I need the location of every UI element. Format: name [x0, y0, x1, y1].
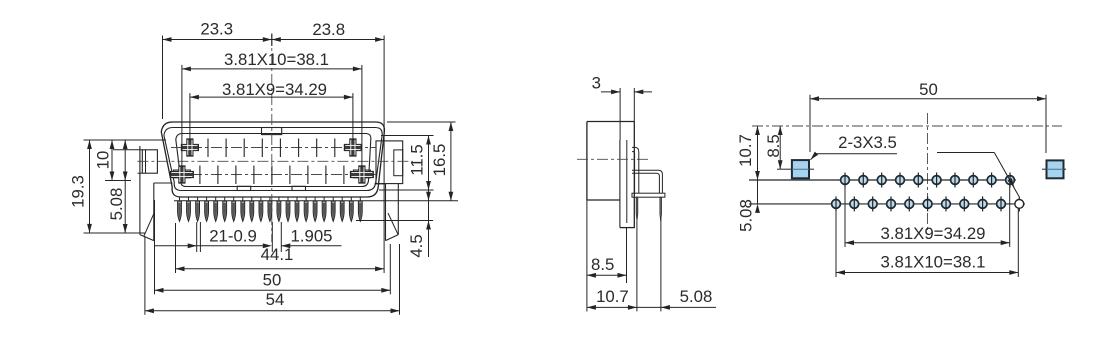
bottom tab right [292, 186, 306, 190]
side pin tips [636, 197, 638, 221]
svg-text:19.3: 19.3 [69, 175, 88, 208]
left side block [142, 150, 157, 173]
svg-text:2-3X3.5: 2-3X3.5 [838, 133, 897, 152]
svg-text:10.7: 10.7 [736, 134, 755, 167]
svg-text:4.5: 4.5 [407, 234, 426, 257]
connector cavity outline [176, 134, 371, 187]
row1 centerline [171, 147, 376, 149]
row2 centerline [171, 174, 376, 176]
svg-text:3: 3 [592, 74, 601, 93]
base plate bottom-left cross [173, 170, 190, 178]
row2 pin ticks [199, 166, 201, 185]
svg-text:10.7: 10.7 [596, 287, 629, 306]
teeth (21 pins) [178, 201, 182, 221]
side pin B [632, 170, 662, 193]
svg-text:3.81X10=38.1: 3.81X10=38.1 [881, 253, 986, 272]
top hole row (10 holes) [841, 176, 850, 185]
bottom row line [749, 203, 1025, 205]
side view body [587, 121, 634, 123]
svg-text:10: 10 [94, 151, 113, 170]
footprint H centerline [752, 125, 1062, 127]
mounting square left [792, 160, 809, 178]
row1 pin ticks [207, 139, 209, 158]
svg-text:44.1: 44.1 [261, 245, 294, 264]
svg-text:54: 54 [266, 290, 285, 309]
cross top-right [344, 139, 361, 156]
mounting hole line left [777, 168, 791, 170]
teeth support line [174, 200, 458, 202]
svg-text:16.5: 16.5 [430, 144, 449, 177]
svg-text:50: 50 [919, 80, 938, 99]
svg-text:21-0.9: 21-0.9 [209, 227, 257, 246]
svg-text:5.08: 5.08 [107, 188, 126, 221]
svg-text:3.81X10=38.1: 3.81X10=38.1 [224, 50, 329, 69]
right leader [937, 152, 994, 154]
connector body outer shell (front view) [161, 122, 384, 197]
right side ear [376, 141, 403, 184]
cross bottom-right [350, 166, 373, 183]
side spacer bar [632, 193, 665, 197]
vertical centerline [271, 34, 273, 242]
mid centerline [137, 160, 413, 162]
svg-text:23.8: 23.8 [312, 20, 345, 39]
svg-text:3.81X9=34.29: 3.81X9=34.29 [881, 224, 986, 243]
svg-text:23.3: 23.3 [200, 20, 233, 39]
svg-text:11.5: 11.5 [408, 144, 427, 175]
cross bottom-left [170, 166, 193, 183]
side pin A [632, 147, 639, 193]
mounting hole line right [1042, 168, 1046, 170]
svg-text:50: 50 [263, 271, 282, 290]
svg-text:5.08: 5.08 [680, 287, 713, 306]
left board-lock bracket [139, 146, 141, 235]
base plate bottom-right cross [353, 170, 370, 178]
svg-text:1.905: 1.905 [291, 227, 333, 246]
svg-text:8.5: 8.5 [591, 255, 614, 274]
side view centerline [577, 158, 648, 160]
svg-text:3.81X9=34.29: 3.81X9=34.29 [222, 80, 327, 99]
footprint V centerline [927, 113, 929, 230]
bottom hole row (11 holes) [832, 200, 841, 209]
top tab [262, 128, 282, 135]
top row line [749, 179, 1016, 181]
connector body mid shell [164, 128, 382, 191]
teeth stems [179, 197, 181, 201]
mounting square right [1047, 160, 1064, 178]
bottom tab left [237, 186, 251, 190]
dim line 23.3/23.8 [271, 34, 273, 47]
right board-lock bracket [397, 184, 399, 235]
cross top-left [181, 139, 198, 156]
